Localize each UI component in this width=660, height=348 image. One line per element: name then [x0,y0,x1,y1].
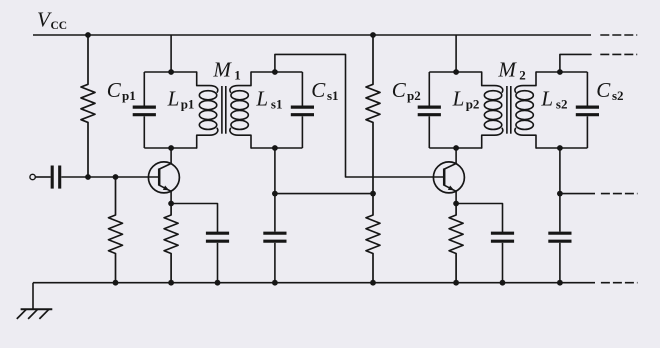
capacitor Cs1 [291,72,314,148]
node stage 2 bias node [557,191,563,197]
svg-text:C: C [392,78,407,102]
svg-text:p2: p2 [407,88,421,103]
wire Vcc rail to tank 1 primary top [170,35,172,72]
node tank 2 primary bottom (collector) [453,145,459,151]
tank 2 primary top wire [429,71,481,73]
ground [17,309,53,319]
capacitor CE2 emitter bypass [491,233,514,283]
wire stage2 bias node line [560,193,595,195]
svg-text:L: L [255,86,268,110]
svg-text:s1: s1 [271,97,283,112]
transformer core M1 [222,86,226,134]
output rail dashed continuation [600,53,637,55]
label Lp2 [452,86,480,111]
transformer core M2 [507,86,511,134]
node tank 1 primary top [168,69,174,75]
wire tank 1 secondary top to Q2 base [275,54,444,177]
node tank 2 secondary top [557,69,563,75]
node R11 on Vcc rail [85,32,91,38]
svg-text:CC: CC [51,20,68,32]
transistor Q1 [148,148,179,204]
label Lp1 [167,86,195,111]
wire input cap to Q1 base [61,176,159,178]
wire tank 2 secondary bottom to node [559,148,561,194]
capacitor Cs2 [576,72,599,148]
resistor R11 (upper bias, Vcc to base) [81,35,95,177]
wire tank 2 secondary top to output rail [560,54,591,72]
svg-text:1: 1 [234,67,241,82]
wire emitter Q2 to bypass cap [456,204,502,232]
inductor Lp2 [482,72,503,148]
capacitor Cp2 [418,72,441,148]
stage2 node dashed continuation [601,193,638,195]
label M2 [497,58,525,83]
svg-text:L: L [167,86,180,110]
node tank 2 secondary bottom [557,145,563,151]
label Ls2 [540,86,567,111]
tank 1 secondary bottom wire [251,147,302,149]
tank 1 secondary top wire [251,71,302,73]
svg-text:s2: s2 [556,97,568,112]
resistor RE2 emitter [449,204,463,283]
resistor RE1 emitter [164,204,178,283]
svg-text:C: C [596,78,611,102]
capacitor stage 1 node bypass [263,194,286,283]
svg-text:C: C [107,78,122,102]
node R12 ground [113,280,119,286]
label Cp2 [392,78,421,103]
node R11 base junction [85,174,91,180]
resistor R22 (lower bias of Q2) [366,194,380,283]
transistor Q2 [433,148,464,204]
node stage 1 bias node [272,191,278,197]
node ground RE2 [453,280,459,286]
svg-text:L: L [452,86,465,110]
capacitor CE1 emitter bypass [206,233,229,283]
svg-text:p1: p1 [122,88,136,103]
svg-text:C: C [311,78,326,102]
label Ls1 [255,86,282,111]
inductor Ls1 [230,72,251,148]
wire emitter Q1 to bypass cap [171,204,217,232]
ground rail [33,282,595,284]
ground rail dashed continuation [601,282,638,284]
wire stage1 bias node to divider [275,193,373,195]
tank 2 secondary bottom wire [536,147,587,149]
capacitor stage 2 node bypass [548,194,571,283]
node ground CE2 [500,280,506,286]
Vcc supply rail [33,34,591,36]
node ground bypass 1 [272,280,278,286]
label M1 [212,58,240,83]
wire tank 1 secondary bottom to node [274,148,276,194]
svg-text:p1: p1 [181,97,195,112]
node ground bypass 2 [557,280,563,286]
label Cs2 [596,78,623,103]
node tank 1 secondary bottom [272,145,278,151]
resistor R12 (lower bias, base to ground) [109,177,123,283]
inductor Lp1 [197,72,218,148]
tank 1 primary bottom wire [144,147,196,149]
node tank 1 primary bottom (collector) [168,145,174,151]
Vcc rail dashed continuation [600,34,637,36]
svg-text:M: M [497,58,517,82]
capacitor Cp1 [133,72,156,148]
tank 2 secondary top wire [536,71,587,73]
node ground RE1 [168,280,174,286]
node R12 base junction [113,174,119,180]
svg-text:L: L [540,86,553,110]
node R21 on Vcc rail [370,32,376,38]
node emitter Q2 [453,201,459,207]
node emitter Q1 [168,201,174,207]
svg-text:s2: s2 [612,88,624,103]
wire Vcc rail to tank 2 primary top [455,35,457,72]
inductor Ls2 [515,72,536,148]
input terminal [30,174,35,179]
capacitor Cin (coupling) [52,166,60,189]
svg-text:2: 2 [519,67,526,82]
node ground CE1 [215,280,221,286]
svg-text:s1: s1 [327,88,339,103]
svg-text:p2: p2 [466,97,480,112]
node R22 ground [370,280,376,286]
wire terminal to input cap [35,176,50,178]
node tank 2 primary top [453,69,459,75]
node divider junction [370,191,376,197]
tank 2 primary bottom wire [429,147,481,149]
resistor R21 (upper bias of Q2) [366,35,380,194]
label Vcc [37,8,67,33]
label Cs1 [311,78,338,103]
node tank 1 secondary top [272,69,278,75]
tank 1 primary top wire [144,71,196,73]
svg-text:M: M [212,58,232,82]
label Cp1 [107,78,136,103]
wire ground rail to ground symbol [32,283,34,310]
